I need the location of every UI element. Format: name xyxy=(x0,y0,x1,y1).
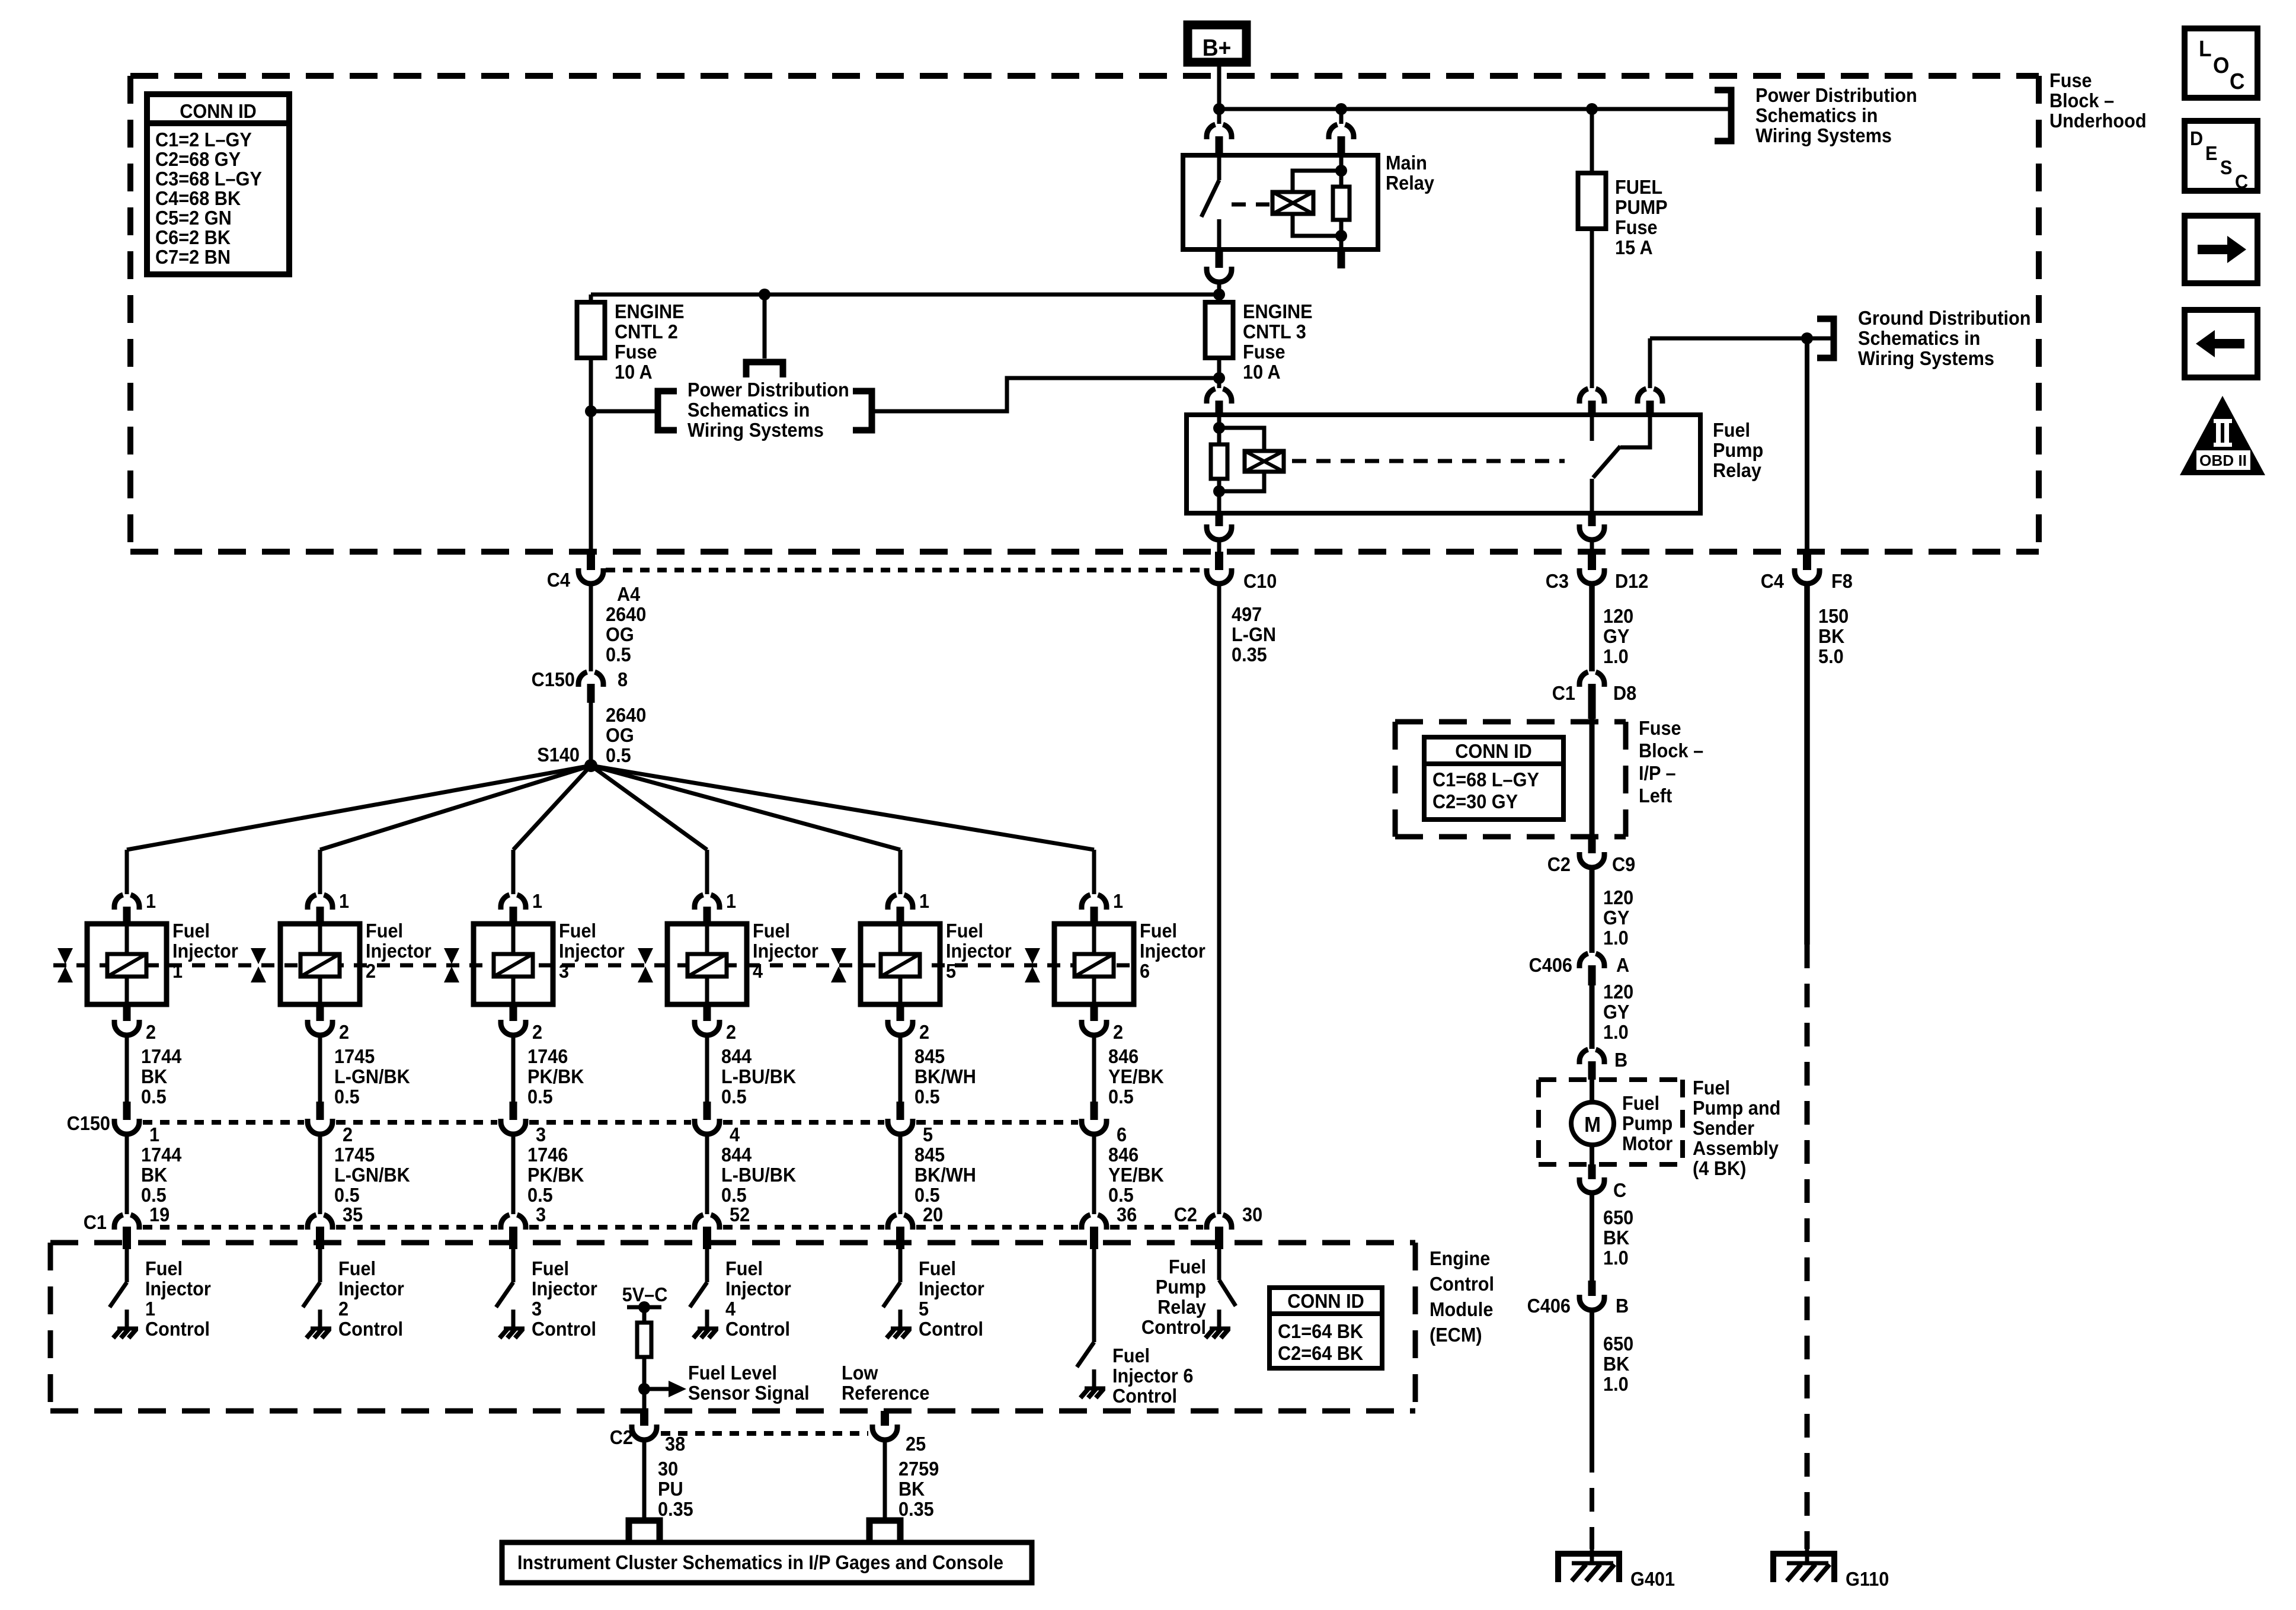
ECM injector 6 driver ground xyxy=(1080,1388,1105,1398)
svg-text:1.0: 1.0 xyxy=(1603,1373,1629,1395)
junction dot ENGINE CNTL 2 feed xyxy=(1213,289,1225,300)
fuel level sensor signal arrow xyxy=(644,1387,669,1391)
svg-text:Injector: Injector xyxy=(1140,940,1205,962)
C2 row dashed link xyxy=(661,1431,868,1436)
svg-text:L-GN/BK: L-GN/BK xyxy=(334,1065,410,1087)
svg-text:Ground Distribution: Ground Distribution xyxy=(1858,307,2030,329)
svg-text:1746: 1746 xyxy=(527,1144,568,1166)
svg-text:E: E xyxy=(2205,142,2217,164)
svg-text:Control: Control xyxy=(1112,1385,1177,1407)
ECM injector 3 driver switch xyxy=(511,1249,516,1282)
connector C4 F8 xyxy=(1805,338,1809,552)
ENGINE CNTL 3 fuse xyxy=(1217,295,1221,302)
bowtie valve symbol 3 xyxy=(444,948,459,982)
svg-text:Power Distribution: Power Distribution xyxy=(1755,84,1917,106)
svg-text:BK: BK xyxy=(141,1065,167,1087)
svg-text:GY: GY xyxy=(1603,907,1629,929)
svg-text:Fuel: Fuel xyxy=(919,1257,956,1279)
fuel pump relay coil loop xyxy=(1219,428,1264,491)
svg-text:0.5: 0.5 xyxy=(721,1184,747,1206)
wire FUEL PUMP fuse to relay xyxy=(1590,229,1594,388)
connector C3 D12 stub xyxy=(1588,513,1596,526)
main relay coil ground stub xyxy=(1338,249,1345,268)
fuel injector 6 coil xyxy=(1092,924,1096,954)
sidebar forward arrow icon xyxy=(2185,216,2257,283)
svg-text:C7=2 BN: C7=2 BN xyxy=(155,246,231,268)
svg-text:Fuel: Fuel xyxy=(946,920,983,942)
junction dot fork drop xyxy=(759,289,770,300)
svg-text:1: 1 xyxy=(1113,890,1123,912)
svg-text:2640: 2640 xyxy=(606,704,646,726)
ECM injector 2 driver ground xyxy=(306,1329,331,1338)
fuel injector 2 box xyxy=(280,924,360,1004)
svg-text:650: 650 xyxy=(1603,1206,1633,1228)
svg-text:0.35: 0.35 xyxy=(1232,644,1267,665)
connector C150 pin 5 xyxy=(897,1102,904,1120)
svg-text:I/P –: I/P – xyxy=(1639,762,1676,784)
wire ground line down to relay pin xyxy=(1648,338,1652,388)
svg-text:846: 846 xyxy=(1108,1045,1139,1067)
svg-text:1745: 1745 xyxy=(334,1144,375,1166)
ECM injector 3 driver ground xyxy=(500,1329,525,1338)
svg-text:Fuel: Fuel xyxy=(1693,1077,1730,1099)
svg-text:Fuse: Fuse xyxy=(615,341,657,363)
svg-text:Control: Control xyxy=(1141,1316,1206,1338)
fuel injector 1 coil xyxy=(125,924,129,954)
wire C150 to ECM C1 col 6 xyxy=(1092,1134,1096,1214)
5V-C rail tick xyxy=(627,1305,661,1310)
svg-text:C4: C4 xyxy=(547,569,570,591)
connector injector 5 pin 2 xyxy=(897,1004,904,1021)
wire C150 to ECM C1 col 2 xyxy=(318,1134,322,1214)
svg-text:Fuse: Fuse xyxy=(1615,216,1658,238)
svg-text:0.5: 0.5 xyxy=(914,1184,940,1206)
svg-text:1746: 1746 xyxy=(527,1045,568,1067)
wire to power distribution bracket xyxy=(591,409,658,414)
svg-text:Pump: Pump xyxy=(1713,439,1763,461)
svg-text:PK/BK: PK/BK xyxy=(527,1164,584,1186)
svg-text:1745: 1745 xyxy=(334,1045,375,1067)
wire through fuse block I/P xyxy=(1590,719,1595,839)
svg-text:(ECM): (ECM) xyxy=(1430,1324,1482,1346)
fuel level sensor pull-up resistor xyxy=(642,1307,647,1323)
connector ECM C1 pin 3 xyxy=(501,1215,510,1230)
connector injector 2 pin 2 xyxy=(316,1004,324,1021)
svg-text:Assembly: Assembly xyxy=(1693,1137,1779,1159)
svg-text:497: 497 xyxy=(1232,603,1262,625)
connector C406 A xyxy=(1579,953,1588,968)
C150 row dashed link xyxy=(143,1120,304,1125)
svg-text:10 A: 10 A xyxy=(615,361,653,383)
wire ground distribution line xyxy=(1650,337,1831,341)
svg-text:Fuel: Fuel xyxy=(145,1257,183,1279)
svg-text:C1: C1 xyxy=(84,1211,107,1233)
svg-text:Fuel: Fuel xyxy=(1169,1256,1206,1278)
connector C2 pin 25 (low reference) xyxy=(881,1411,889,1426)
svg-text:0.5: 0.5 xyxy=(334,1184,360,1206)
connector into Fuel Pump Relay (arm pin) xyxy=(1638,389,1646,404)
engine control module dashed box bottom xyxy=(50,1409,1415,1414)
svg-text:20: 20 xyxy=(923,1204,943,1225)
ECM injector 1 driver switch xyxy=(125,1249,129,1282)
svg-text:Control: Control xyxy=(1430,1273,1494,1295)
connector C10 upper (relay output) xyxy=(1216,513,1223,526)
svg-text:0.35: 0.35 xyxy=(658,1498,693,1520)
svg-text:25: 25 xyxy=(906,1433,926,1455)
svg-text:Underhood: Underhood xyxy=(2049,110,2147,132)
svg-text:Pump: Pump xyxy=(1622,1112,1673,1134)
svg-text:BK: BK xyxy=(1818,625,1844,647)
svg-text:3: 3 xyxy=(536,1124,546,1145)
svg-text:0.5: 0.5 xyxy=(606,644,631,665)
wire S140 to injector 3 xyxy=(513,766,591,850)
svg-text:Block –: Block – xyxy=(1639,740,1703,761)
connector ECM C1 pin 36 xyxy=(1082,1215,1091,1230)
svg-text:Fuel: Fuel xyxy=(1112,1345,1150,1366)
junction dot main relay coil top xyxy=(1335,165,1347,177)
wire injector 4 to C150 xyxy=(705,1035,709,1102)
fuel pump relay switch arm xyxy=(1593,446,1620,478)
wire C10/D12 down to D8 xyxy=(1589,584,1595,671)
junction dot ground distribution xyxy=(1801,332,1813,344)
svg-text:Schematics in: Schematics in xyxy=(687,399,810,421)
wire ENGINE CNTL 2 fuse down xyxy=(589,358,593,554)
svg-text:0.35: 0.35 xyxy=(898,1498,934,1520)
svg-text:C406: C406 xyxy=(1527,1295,1571,1317)
wire drop to off-page fork xyxy=(763,295,767,359)
bowtie valve symbol 5 xyxy=(831,948,846,982)
fuel pump relay coil dashed link to switch xyxy=(1292,459,1565,463)
svg-text:Fuse: Fuse xyxy=(2049,69,2092,91)
svg-text:L: L xyxy=(2199,36,2212,61)
svg-text:BK: BK xyxy=(1603,1353,1629,1375)
connector C150 pin 3 xyxy=(510,1102,517,1120)
junction dot main relay coil bottom xyxy=(1335,230,1347,242)
wire C to C406 B xyxy=(1590,1193,1594,1281)
junction dot fp relay coil top xyxy=(1213,422,1225,434)
svg-text:650: 650 xyxy=(1603,1333,1633,1355)
svg-text:Motor: Motor xyxy=(1622,1132,1673,1154)
svg-text:3: 3 xyxy=(536,1204,546,1225)
svg-text:Block –: Block – xyxy=(2049,89,2114,111)
splice S140 xyxy=(584,759,597,772)
wire ENGINE CNTL 3 fuse to relay box xyxy=(1217,358,1221,388)
ECM injector 5 driver ground xyxy=(887,1329,912,1338)
svg-text:120: 120 xyxy=(1603,981,1633,1003)
svg-text:G110: G110 xyxy=(1846,1568,1889,1590)
svg-text:Injector: Injector xyxy=(338,1278,404,1299)
svg-text:3: 3 xyxy=(532,1298,542,1320)
fuel injector 1 box xyxy=(87,924,167,1004)
svg-text:C9: C9 xyxy=(1612,853,1635,875)
svg-text:1: 1 xyxy=(172,960,183,982)
off-page bracket power distribution left xyxy=(658,391,677,430)
wire injector 1 to C150 xyxy=(125,1035,129,1102)
connector C150 pin 4 xyxy=(703,1102,711,1120)
svg-text:1: 1 xyxy=(532,890,542,912)
fuel injector 4 coil xyxy=(705,924,709,954)
junction dot power distribution jog xyxy=(1213,372,1225,384)
svg-text:Injector: Injector xyxy=(919,1278,984,1299)
ECM injector 4 driver ground xyxy=(693,1329,718,1338)
svg-text:Fuel: Fuel xyxy=(1622,1092,1659,1114)
svg-text:5: 5 xyxy=(923,1124,933,1145)
svg-text:1: 1 xyxy=(149,1124,159,1145)
svg-text:L-BU/BK: L-BU/BK xyxy=(721,1164,796,1186)
fuse block underhood dashed border top xyxy=(130,73,2039,79)
svg-text:Reference: Reference xyxy=(842,1382,929,1404)
svg-text:2: 2 xyxy=(343,1124,353,1145)
svg-text:C: C xyxy=(2235,171,2248,193)
main relay coil dashed link xyxy=(1232,203,1269,207)
svg-text:120: 120 xyxy=(1603,605,1633,627)
svg-text:0.5: 0.5 xyxy=(721,1086,747,1108)
connector C150 pin 8 xyxy=(578,672,587,687)
fuel injector 3 coil xyxy=(511,924,516,954)
svg-text:CNTL 3: CNTL 3 xyxy=(1243,321,1306,343)
wire to instrument cluster (25) xyxy=(883,1440,887,1521)
ECM fuel pump relay driver switch xyxy=(1217,1249,1221,1280)
svg-text:B: B xyxy=(1616,1295,1629,1317)
svg-text:1.0: 1.0 xyxy=(1603,1247,1629,1269)
svg-text:844: 844 xyxy=(721,1144,752,1166)
FUEL PUMP fuse xyxy=(1578,173,1606,229)
svg-text:2: 2 xyxy=(338,1298,348,1320)
svg-text:Injector 6: Injector 6 xyxy=(1112,1365,1193,1387)
fuel pump motor xyxy=(1571,1102,1614,1145)
svg-text:Engine: Engine xyxy=(1430,1247,1490,1269)
svg-text:Injector: Injector xyxy=(725,1278,791,1299)
svg-text:F8: F8 xyxy=(1831,570,1853,592)
ECM fuel pump relay driver ground xyxy=(1205,1329,1230,1338)
svg-text:C2: C2 xyxy=(1174,1204,1197,1225)
svg-text:C3=68 L–GY: C3=68 L–GY xyxy=(155,168,262,190)
svg-text:0.5: 0.5 xyxy=(606,744,631,766)
connector row dashed link line xyxy=(606,568,1205,572)
junction dot power distribution branch xyxy=(585,405,597,417)
svg-text:3: 3 xyxy=(559,960,569,982)
wire injector 6 to C150 xyxy=(1092,1035,1096,1102)
svg-text:Module: Module xyxy=(1430,1298,1493,1320)
main relay coil loop wires xyxy=(1293,171,1341,236)
svg-text:C2=30 GY: C2=30 GY xyxy=(1432,790,1518,812)
fuel pump relay switch feed wire xyxy=(1620,415,1650,447)
svg-text:PU: PU xyxy=(658,1478,683,1500)
svg-text:0.5: 0.5 xyxy=(141,1184,167,1206)
svg-text:0.5: 0.5 xyxy=(141,1086,167,1108)
fuel injector 2 coil xyxy=(318,924,322,954)
connector below Main Relay xyxy=(1216,249,1223,268)
svg-text:Relay: Relay xyxy=(1157,1296,1206,1318)
ECM injector 1 driver ground xyxy=(113,1329,138,1338)
svg-text:Schematics in: Schematics in xyxy=(1858,327,1980,349)
svg-text:Schematics in: Schematics in xyxy=(1755,104,1878,126)
svg-text:FUEL: FUEL xyxy=(1615,176,1662,198)
svg-text:Fuel: Fuel xyxy=(172,920,210,942)
svg-text:GY: GY xyxy=(1603,1001,1629,1023)
wire S140 to injector 1 xyxy=(127,766,591,850)
wire injector 2 to C150 xyxy=(318,1035,322,1102)
svg-text:1.0: 1.0 xyxy=(1603,927,1629,949)
svg-text:Control: Control xyxy=(338,1318,403,1340)
svg-text:1744: 1744 xyxy=(141,1144,182,1166)
fuel injector 5 coil xyxy=(898,924,903,954)
fuel pump relay switch lower contact xyxy=(1590,479,1594,513)
svg-text:ENGINE: ENGINE xyxy=(615,300,685,322)
sidebar LOC icon xyxy=(2185,28,2257,98)
ENGINE CNTL 2 fuse xyxy=(589,295,593,302)
connector C2 pin 38 xyxy=(640,1409,648,1426)
fuel injector 4 box xyxy=(667,924,747,1004)
wire C150 to ECM C1 col 1 xyxy=(125,1134,129,1214)
svg-text:1: 1 xyxy=(726,890,736,912)
fuel injector 3 box xyxy=(474,924,553,1004)
svg-text:Injector: Injector xyxy=(559,940,625,962)
svg-text:Fuel: Fuel xyxy=(1140,920,1177,942)
svg-text:2: 2 xyxy=(339,1021,349,1043)
svg-text:C: C xyxy=(1613,1179,1626,1201)
svg-text:C2: C2 xyxy=(610,1426,633,1448)
svg-text:S: S xyxy=(2220,156,2232,178)
svg-text:Low: Low xyxy=(842,1362,878,1384)
svg-text:Injector: Injector xyxy=(532,1278,597,1299)
connector into Fuel Pump Relay (switch pin) xyxy=(1579,389,1588,404)
connector into Main Relay pin (left) xyxy=(1217,109,1221,124)
svg-text:Relay: Relay xyxy=(1713,459,1761,481)
dashed wire to G110 xyxy=(1804,584,1810,945)
svg-text:2: 2 xyxy=(1113,1021,1123,1043)
svg-text:Wiring Systems: Wiring Systems xyxy=(687,419,824,441)
svg-text:4: 4 xyxy=(753,960,763,982)
svg-text:C1=2 L–GY: C1=2 L–GY xyxy=(155,129,252,151)
wire injector 5 to C150 xyxy=(898,1035,903,1102)
C1 row dashed link xyxy=(143,1225,304,1230)
connector B (pump assembly) xyxy=(1579,1049,1588,1064)
wire into pump motor xyxy=(1590,1080,1594,1103)
svg-text:S140: S140 xyxy=(537,744,580,766)
junction dot at B+ bus xyxy=(1213,103,1225,115)
svg-text:CNTL 2: CNTL 2 xyxy=(615,321,678,343)
svg-text:Fuel: Fuel xyxy=(532,1257,569,1279)
svg-text:2640: 2640 xyxy=(606,603,646,625)
engine control module dashed box right xyxy=(1413,1243,1418,1411)
svg-text:Control: Control xyxy=(725,1318,790,1340)
svg-text:Fuel: Fuel xyxy=(725,1257,763,1279)
wire to instrument cluster (38) xyxy=(642,1440,647,1521)
fuse block I/P CONN ID box xyxy=(1424,737,1563,820)
wire bracket to ENGINE CNTL 3 jog xyxy=(872,378,1219,411)
connector injector 4 pin 1 xyxy=(695,895,703,910)
off-page bracket to Power Distribution (top right) xyxy=(1715,90,1731,141)
main relay switch fixed contact xyxy=(1217,155,1221,180)
svg-text:Pump and: Pump and xyxy=(1693,1097,1780,1119)
svg-text:D8: D8 xyxy=(1613,682,1636,704)
fuel injector 5 box xyxy=(861,924,940,1004)
svg-text:C3: C3 xyxy=(1546,570,1569,592)
wire C150 to ECM C1 col 4 xyxy=(705,1134,709,1214)
svg-text:Sender: Sender xyxy=(1693,1117,1754,1139)
wire B+ to bus xyxy=(1217,66,1221,109)
svg-text:BK: BK xyxy=(898,1478,925,1500)
svg-text:1.0: 1.0 xyxy=(1603,645,1629,667)
svg-text:C1=68 L–GY: C1=68 L–GY xyxy=(1432,769,1539,790)
ECM CONN ID table box xyxy=(1269,1288,1382,1368)
svg-text:BK/WH: BK/WH xyxy=(914,1164,976,1186)
svg-text:C2=64 BK: C2=64 BK xyxy=(1278,1342,1363,1364)
svg-text:B: B xyxy=(1614,1049,1627,1071)
bowtie valve symbol 2 xyxy=(251,948,266,982)
svg-text:Main: Main xyxy=(1386,152,1427,174)
svg-text:30: 30 xyxy=(658,1458,678,1480)
wire C150 to ECM C1 col 5 xyxy=(898,1134,903,1214)
svg-text:C4=68 BK: C4=68 BK xyxy=(155,187,241,209)
svg-text:1744: 1744 xyxy=(141,1045,182,1067)
ECM injector 2 driver switch xyxy=(318,1249,322,1282)
svg-text:GY: GY xyxy=(1603,625,1629,647)
wire C150-8 to S140 xyxy=(589,703,593,766)
wire C4 to C150-8 xyxy=(589,584,593,671)
svg-text:36: 36 xyxy=(1117,1204,1137,1225)
svg-text:2: 2 xyxy=(366,960,376,982)
junction dot fuel pump fuse branch xyxy=(1586,103,1598,115)
svg-text:BK: BK xyxy=(1603,1227,1629,1249)
svg-text:844: 844 xyxy=(721,1045,752,1067)
connector C150 pin 6 xyxy=(1091,1102,1098,1120)
svg-text:15 A: 15 A xyxy=(1615,236,1653,258)
svg-text:846: 846 xyxy=(1108,1144,1139,1166)
svg-text:D12: D12 xyxy=(1615,570,1648,592)
svg-text:Left: Left xyxy=(1639,785,1673,806)
svg-text:Fuel: Fuel xyxy=(753,920,790,942)
svg-text:52: 52 xyxy=(730,1204,750,1225)
svg-text:5: 5 xyxy=(919,1298,929,1320)
underhood CONN ID table box xyxy=(147,94,289,274)
svg-text:38: 38 xyxy=(665,1433,685,1455)
svg-text:Injector: Injector xyxy=(172,940,238,962)
connector injector 6 pin 2 xyxy=(1091,1004,1098,1021)
off-page fork to instrument cluster (25) xyxy=(869,1521,900,1542)
svg-text:Control: Control xyxy=(919,1318,983,1340)
fuel injector 6 box xyxy=(1054,924,1134,1004)
battery feed B+ box xyxy=(1188,25,1246,62)
svg-text:Fuel Level: Fuel Level xyxy=(688,1362,777,1384)
svg-text:C5=2 GN: C5=2 GN xyxy=(155,207,232,229)
fuel pump relay resistor branch xyxy=(1217,415,1221,444)
svg-text:150: 150 xyxy=(1818,605,1849,627)
svg-text:O: O xyxy=(2213,53,2229,78)
svg-text:2759: 2759 xyxy=(898,1458,939,1480)
main relay switch arm xyxy=(1201,180,1219,217)
wire main relay to ENGINE CNTL 3 fuse xyxy=(1217,282,1221,302)
svg-text:C1: C1 xyxy=(1552,682,1575,704)
svg-text:C10: C10 xyxy=(1243,570,1277,592)
svg-text:CONN ID: CONN ID xyxy=(1455,740,1532,762)
svg-text:C6=2 BK: C6=2 BK xyxy=(155,226,231,248)
fuel pump relay switch fixed contact xyxy=(1590,415,1594,441)
connector C2 C9 xyxy=(1588,837,1596,853)
svg-text:19: 19 xyxy=(149,1204,170,1225)
connector into Fuel Pump Relay (left pin) xyxy=(1207,389,1216,404)
svg-text:C: C xyxy=(2230,69,2245,94)
off-page fork to instrument cluster (38) xyxy=(629,1521,660,1542)
fuse block underhood dashed border left xyxy=(127,76,133,552)
svg-text:C406: C406 xyxy=(1529,954,1572,976)
junction dot fp relay coil bottom xyxy=(1213,485,1225,497)
off-page fork pointer (power distribution) xyxy=(746,362,783,377)
svg-text:35: 35 xyxy=(343,1204,363,1225)
dashed wire to G401 xyxy=(1590,1449,1594,1549)
fuse block underhood dashed border bottom xyxy=(130,549,2039,555)
